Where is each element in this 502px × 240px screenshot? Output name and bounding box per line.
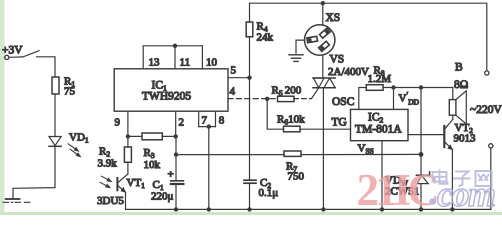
svg-text:4: 4 [230, 86, 236, 98]
svg-text:+: + [168, 169, 174, 181]
ground at XS [289, 40, 305, 61]
wire IC2 to VT2 base [408, 134, 444, 136]
watermark glyph wang [476, 171, 492, 186]
bottom rail [126, 208, 492, 210]
pin 11 wire [175, 46, 190, 69]
pin 8 wire [216, 111, 225, 126]
pin 10 wire [202, 46, 217, 69]
junction dot VDD pin on R8 rail [391, 85, 395, 89]
svg-text:3DU5: 3DU5 [97, 195, 124, 207]
wire zener branch down [420, 88, 422, 155]
junction dot XS drop on top rail [321, 1, 325, 5]
svg-text:3.9k: 3.9k [98, 158, 118, 170]
pin 13 wire [143, 46, 160, 69]
junction dot pin11 bus [173, 44, 177, 48]
socket XS [305, 3, 341, 55]
svg-text:11: 11 [180, 57, 191, 69]
speaker B 8ohm [449, 62, 468, 125]
wire XS to triac [322, 55, 324, 78]
resistor R7 [176, 151, 421, 183]
wire switch to R1 top [37, 57, 56, 77]
svg-text:10: 10 [206, 57, 218, 69]
svg-text:8: 8 [219, 115, 225, 127]
svg-text:VS: VS [330, 54, 345, 66]
svg-text:220μ: 220μ [151, 191, 174, 203]
wire triac down to rail [322, 88, 324, 210]
junction dot zener branch on R8 rail [419, 85, 423, 89]
terminal +3V [5, 55, 9, 59]
transistor VT2 9013 [444, 120, 476, 210]
svg-text:XS: XS [326, 12, 341, 24]
svg-text:TWH9205: TWH9205 [142, 91, 191, 103]
pin 7 wire [199, 111, 208, 126]
watermark dot [429, 198, 435, 204]
svg-text:0.1μ: 0.1μ [259, 187, 279, 199]
phototransistor VT1 3DU5 [97, 174, 145, 209]
wire R1 to VD1 [54, 94, 56, 137]
capacitor C1 (electrolytic) [151, 136, 183, 209]
LED VD1 [49, 132, 89, 157]
pin 4 dashed wire to R5 [228, 86, 278, 99]
junction dot C1/pin2/R7 line [174, 152, 178, 156]
junction dot triac line at rail [321, 207, 325, 211]
svg-text:2: 2 [179, 117, 185, 129]
junction dot C1 at rail [174, 207, 178, 211]
riser pin4 node to R6 wire [267, 99, 283, 129]
triac VS [312, 54, 370, 99]
watermark glyph dian [433, 170, 448, 184]
junction dot pin4 line / R6 riser [265, 97, 269, 101]
junction dot pin9/R3 [126, 134, 130, 138]
resistor R3 [128, 133, 176, 171]
wire VD1 down to ground run [13, 146, 55, 198]
node +3V label [2, 45, 23, 57]
node V'DD label [399, 91, 420, 107]
node VSS label [358, 143, 374, 156]
svg-text:5: 5 [231, 65, 237, 77]
svg-text:750: 750 [288, 171, 305, 183]
wire VDD pin [393, 88, 395, 110]
resistor R8 [366, 65, 453, 91]
svg-text:8Ω: 8Ω [454, 79, 468, 91]
svg-text:TM-801A: TM-801A [355, 124, 402, 136]
svg-text:24k: 24k [257, 32, 274, 44]
svg-text:75: 75 [64, 86, 76, 98]
pin 2 wire [176, 111, 184, 136]
pin 9 wire [115, 111, 128, 136]
capacitor C2 [244, 177, 278, 209]
terminal ~220V top [485, 71, 489, 75]
pin 5 wire [228, 65, 250, 78]
wire OSC pin up to R8 [359, 88, 367, 110]
svg-text:2A/400V: 2A/400V [328, 66, 369, 78]
zener diode VDW 2CW51 [385, 154, 430, 209]
resistor R1 [52, 76, 76, 98]
junction dot pins7-8 bus [207, 124, 211, 128]
junction dot VT2 emitter at rail [450, 207, 454, 211]
wire pins7-8 to bottom rail [208, 127, 210, 210]
resistor R2 [98, 136, 132, 174]
svg-text:VSS: VSS [358, 143, 374, 156]
junction dot zener/R7 line [419, 152, 424, 157]
svg-text:TG: TG [332, 117, 347, 129]
bus joining pins 13,11,10 [143, 45, 202, 47]
resistor R4 [246, 3, 273, 78]
svg-text:10k: 10k [144, 159, 161, 171]
svg-text:VT1: VT1 [127, 177, 146, 190]
svg-text:21IC: 21IC [357, 165, 438, 215]
resistor R6 [277, 114, 351, 132]
watermark 21IC [357, 165, 495, 215]
IC U1 TWH9205 [114, 69, 228, 111]
svg-text:VD1: VD1 [69, 132, 89, 145]
junction dot R3/pin2 [174, 134, 178, 138]
wire pin5 line down through C2 [249, 78, 251, 181]
wire VSS pin down to rail [381, 141, 383, 210]
svg-text:OSC: OSC [332, 96, 355, 108]
terminal ~220V bottom [489, 144, 493, 148]
left green border strip [0, 0, 5, 212]
svg-text:13: 13 [149, 57, 161, 69]
svg-text:7: 7 [202, 115, 208, 127]
junction dot VSS at rail [380, 207, 384, 211]
resistor R5 [272, 85, 312, 102]
junction dot pin5 / R4 line [247, 76, 251, 80]
svg-text:V′DD: V′DD [399, 91, 420, 107]
svg-text:9: 9 [115, 117, 121, 129]
junction dot C2 at rail [247, 207, 251, 211]
junction dot pin7-8 line at rail [207, 207, 211, 211]
node OSC label [332, 96, 355, 108]
svg-text:9013: 9013 [454, 133, 477, 145]
svg-text:+3V: +3V [2, 45, 23, 57]
top rail [250, 3, 487, 71]
IC U2 TM-801A [351, 109, 409, 140]
node ~220V label [470, 104, 502, 116]
junction dot zener at rail [419, 207, 423, 211]
watermark glyph zi [453, 172, 471, 187]
svg-text:R610k: R610k [277, 114, 305, 127]
chassis ground (battery return) [3, 199, 30, 202]
svg-text:R5 200: R5 200 [272, 85, 302, 98]
svg-text:~220V: ~220V [470, 104, 502, 116]
node TG label [332, 117, 347, 129]
switch S (blade) [9, 51, 39, 58]
bus joining pins 7,8 [199, 126, 216, 128]
wire bottom terminal to rail [490, 148, 492, 209]
svg-text:B: B [455, 62, 463, 74]
bottom green border strip [0, 212, 502, 215]
svg-text:1.2M: 1.2M [368, 73, 392, 85]
